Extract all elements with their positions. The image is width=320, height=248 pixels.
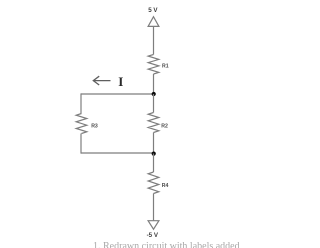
svg-text:R4: R4 (162, 183, 169, 189)
resistor R4 (148, 172, 159, 194)
resistor R1 (148, 55, 159, 75)
wire R2 to node B (153, 133, 155, 154)
resistor R3 (76, 114, 87, 134)
svg-text:1. Redrawn circuit with labels: 1. Redrawn circuit with labels added (93, 241, 240, 248)
-5V power symbol (down triangle) (148, 221, 159, 230)
resistor R2 (148, 113, 159, 133)
svg-text:R2: R2 (161, 124, 168, 130)
wire node B to R4 (153, 154, 155, 173)
svg-text:R3: R3 (91, 124, 98, 130)
wire supply to R1 (153, 26, 155, 54)
node B junction dot (152, 152, 156, 156)
wire left branch lower (80, 134, 82, 154)
svg-text:R1: R1 (162, 64, 169, 70)
wire R1 to node A (153, 74, 155, 94)
wire node A horizontal (81, 93, 154, 95)
node A junction dot (152, 92, 156, 96)
svg-text:-5 V: -5 V (147, 232, 159, 239)
svg-text:5 V: 5 V (148, 7, 158, 14)
wire node B horizontal (81, 152, 154, 154)
+5V power symbol (up triangle) (148, 17, 159, 27)
wire node A to R2 (153, 94, 155, 113)
wire R4 to -5V supply (153, 194, 155, 221)
svg-text:I: I (118, 74, 123, 89)
wire left branch upper (80, 93, 82, 113)
current arrow (93, 76, 110, 85)
